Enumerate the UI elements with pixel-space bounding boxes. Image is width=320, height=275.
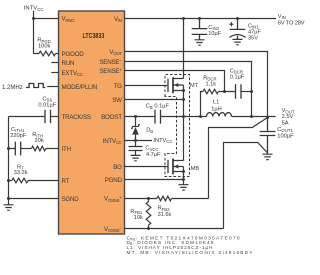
wire VIN drop to MT drain — [183, 19, 185, 79]
label CVCC 4.7uF — [145, 146, 161, 159]
svg-text:RT: RT — [62, 178, 70, 185]
node RT junction — [7, 179, 10, 182]
note L1 part number — [127, 245, 214, 251]
label CDCR 0.1uF — [230, 68, 245, 80]
svg-text:PGOOD: PGOOD — [62, 51, 85, 58]
ground power — [179, 185, 189, 190]
svg-text:COUT1: COUT1 — [277, 127, 293, 133]
pin ITH — [62, 146, 71, 153]
svg-text:TG: TG — [114, 83, 123, 90]
node SGND junction — [7, 197, 10, 200]
node VOUT junction — [266, 116, 269, 119]
svg-text:MB: MB — [191, 166, 200, 172]
label RFB1 10k — [130, 209, 143, 221]
node PGND junction — [182, 178, 185, 181]
svg-text:INTVCC: INTVCC — [153, 138, 172, 144]
pin VRNG — [62, 16, 76, 23]
svg-text:1.2MHz: 1.2MHz — [2, 85, 23, 91]
label CB 0.1uF — [146, 104, 170, 110]
wire VOSNS+ — [125, 198, 157, 200]
node L1 left junction — [199, 115, 202, 118]
node MT source — [182, 89, 185, 92]
svg-text:TRACK/SS: TRACK/SS — [62, 114, 91, 121]
node INTVCC junction — [134, 139, 137, 142]
wire RUN stub — [51, 62, 58, 64]
node MB source — [182, 170, 185, 173]
transistor MT — [168, 77, 184, 93]
wire SENSE- — [125, 62, 252, 92]
svg-text:SENSE−: SENSE− — [99, 58, 122, 66]
label RT 33.2k — [14, 164, 28, 176]
diode DB schottky — [131, 117, 140, 141]
label RDCR 1.1k — [203, 75, 216, 87]
capacitor COUT1 100uF — [260, 118, 276, 160]
pin SENSE+ — [99, 67, 122, 75]
svg-text:6V TO 28V: 6V TO 28V — [278, 20, 305, 26]
wire VOSNS- — [125, 228, 224, 230]
svg-text:PGND: PGND — [105, 177, 123, 184]
svg-text:LTC3833: LTC3833 — [83, 33, 105, 40]
label MB — [191, 166, 200, 172]
node FB divider top — [147, 197, 150, 200]
svg-text:SW: SW — [112, 97, 122, 104]
svg-text:CVCC: CVCC — [145, 146, 158, 152]
note DB part number — [127, 240, 214, 246]
svg-text:DB: DB — [146, 128, 153, 134]
pin TG — [114, 83, 123, 90]
wire BOOST — [125, 116, 156, 118]
capacitor CB 0.1uF — [155, 110, 207, 124]
wire left rail — [8, 117, 10, 205]
svg-text:MT: MT — [190, 83, 199, 89]
svg-text:VIN: VIN — [278, 14, 286, 20]
resistor RT 33.2k — [9, 178, 59, 183]
wire down to PGOOD row — [34, 19, 40, 54]
pin VOSNS+ — [104, 195, 122, 203]
node ITH junction — [7, 147, 10, 150]
wire VOUT pin to output node — [125, 52, 268, 118]
wire switch node vertical — [183, 91, 185, 161]
svg-text:ITH: ITH — [62, 146, 71, 153]
pin RT — [62, 178, 70, 185]
resistor RPGD 100k — [39, 51, 59, 56]
svg-text:CB 0.1µF: CB 0.1µF — [146, 104, 170, 110]
pin TRACK/SS — [62, 114, 91, 121]
wire TRACK/SS left — [9, 116, 46, 118]
note CIN1 part number — [127, 235, 240, 241]
svg-text:BG: BG — [113, 164, 122, 171]
label RITH 20k — [32, 132, 44, 144]
capacitor CIN2 10uF — [192, 19, 208, 46]
label CITH1 220pF — [10, 127, 27, 139]
svg-text:100µF: 100µF — [277, 134, 294, 140]
resistor RITH 20k — [32, 146, 59, 151]
svg-text:10k: 10k — [134, 215, 143, 221]
pin VOUT — [109, 49, 122, 56]
svg-text:1µH: 1µH — [211, 106, 222, 112]
svg-text:0.1µF: 0.1µF — [230, 75, 245, 81]
label MT — [190, 83, 199, 89]
svg-text:BOOST: BOOST — [101, 114, 122, 121]
clock square wave symbol — [26, 84, 45, 88]
wire MB source to ground — [183, 172, 185, 185]
wire VIN rail — [125, 18, 277, 20]
pin RUN — [62, 60, 75, 67]
transistor MB — [168, 159, 184, 175]
svg-text:4.7µF: 4.7µF — [146, 152, 161, 158]
label VIN 6V TO 28V — [278, 14, 305, 27]
pin SENSE- — [99, 58, 122, 66]
node CIN1 junction — [236, 17, 239, 20]
label CIN2 10uF — [208, 25, 221, 37]
svg-text:2.5V: 2.5V — [282, 114, 294, 120]
svg-text:1.1k: 1.1k — [206, 82, 217, 88]
pin INTVCC — [103, 138, 122, 145]
resistor RFB2 31.6k — [157, 196, 209, 201]
svg-text:100k: 100k — [38, 43, 50, 49]
svg-text:L1: L1 — [213, 100, 219, 106]
label CIN1 47uF 35V — [248, 23, 261, 41]
node VIN drop junction — [182, 17, 185, 20]
net INTVCC top-left label — [24, 6, 44, 12]
pin VIN — [114, 16, 122, 23]
pin MODE/PLLIN — [62, 84, 97, 91]
wire INTVCC pin — [125, 140, 153, 142]
capacitor CITH1 220pF — [9, 142, 32, 156]
label CSS 0.01uF — [38, 96, 56, 108]
note MT MB part number — [127, 250, 254, 256]
pin BOOST — [101, 114, 122, 121]
wire PGND — [125, 179, 184, 181]
pin PGND — [105, 177, 123, 184]
label 1.2MHz — [2, 85, 23, 91]
svg-text:SENSE+: SENSE+ — [99, 67, 122, 75]
svg-text:5A: 5A — [282, 120, 289, 126]
wire EXTVCC stub — [51, 72, 58, 74]
wire MODE/PLLIN — [47, 86, 58, 88]
pin BG — [113, 164, 122, 171]
pin VOSNS- — [104, 225, 122, 233]
wire BG — [125, 166, 168, 168]
resistor RDCR 1.1k — [201, 89, 236, 116]
capacitor CDCR 0.1uF — [236, 84, 252, 99]
svg-text:SGND: SGND — [62, 196, 80, 203]
dashed outline dual MOSFET package MT/MB — [165, 75, 190, 177]
svg-text:MODE/PLLIN: MODE/PLLIN — [62, 84, 97, 91]
capacitor CIN1 47uF 35V polarized — [229, 19, 245, 45]
label VOUT 2.5V 5A — [282, 108, 295, 126]
svg-text:31.6k: 31.6k — [158, 212, 172, 218]
wire VOUT remote sense — [209, 118, 268, 199]
node BOOST-DB junction — [134, 115, 137, 118]
capacitor CVCC 4.7uF — [129, 141, 143, 161]
label RPGD 100k — [37, 38, 50, 50]
node CB-SW junction — [182, 115, 185, 118]
label L1 1uH — [211, 100, 222, 113]
IC U1 LTC3833 — [59, 11, 125, 234]
wire GND remote sense — [224, 143, 268, 229]
node SENSE+ junction — [223, 90, 226, 93]
wire SGND — [9, 198, 59, 200]
node SW junction — [182, 98, 185, 101]
svg-text:20k: 20k — [35, 138, 44, 144]
wire INTVCC to VRNG pin — [34, 11, 59, 19]
wire SW — [125, 99, 184, 101]
node CIN2 junction — [198, 17, 201, 20]
svg-text:RUN: RUN — [62, 60, 75, 67]
wire CDCR to output row — [251, 92, 253, 117]
svg-text:33.2k: 33.2k — [14, 170, 28, 176]
capacitor CSS 0.01uF — [45, 110, 59, 124]
label DB — [146, 128, 153, 134]
pin EXTVCC — [62, 70, 83, 77]
wire TG — [125, 85, 168, 87]
node CDCR right junction — [250, 90, 253, 93]
label COUT1 100uF — [277, 127, 294, 140]
ground signal — [4, 205, 14, 210]
node VRNG junction — [32, 17, 35, 20]
node FB divider bottom — [147, 227, 150, 230]
pin SW — [112, 97, 122, 104]
inductor L1 1uH — [207, 113, 276, 117]
wire SENSE+ — [125, 71, 225, 92]
resistor RFB1 10k — [146, 199, 151, 229]
net INTVCC label — [153, 138, 172, 144]
label RFB2 31.6k — [158, 206, 172, 218]
pin SGND — [62, 196, 80, 203]
svg-text:35V: 35V — [248, 35, 258, 41]
svg-text:MT, MB: VISHAY/SILICONIX Si481: MT, MB: VISHAY/SILICONIX Si4816BDY — [127, 250, 254, 256]
svg-text:220pF: 220pF — [10, 133, 27, 139]
svg-text:0.01µF: 0.01µF — [38, 102, 56, 108]
svg-text:10µF: 10µF — [208, 31, 221, 37]
node L1 output junction — [250, 115, 253, 118]
pin PGOOD — [62, 51, 85, 58]
